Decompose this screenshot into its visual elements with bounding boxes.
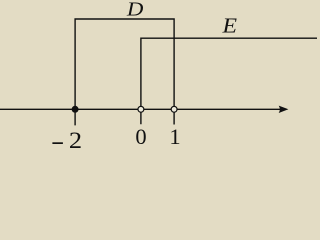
interval D outline (verticals at -2 and 1 joined by top bar) (75, 19, 174, 125)
axis arrowhead (279, 106, 289, 113)
minus sign of label -2 (52, 142, 63, 144)
svg-text:0: 0 (135, 124, 146, 149)
closed point at -2 (72, 106, 79, 113)
open point at 1 (171, 106, 177, 112)
svg-text:E: E (221, 13, 237, 37)
svg-text:1: 1 (169, 124, 180, 149)
open point at 0 (138, 106, 144, 112)
svg-text:2: 2 (69, 128, 82, 149)
interval E outline (vertical at 0 with bar to right edge) (141, 38, 317, 124)
number line axis (0, 108, 281, 110)
svg-text:D: D (126, 0, 144, 20)
